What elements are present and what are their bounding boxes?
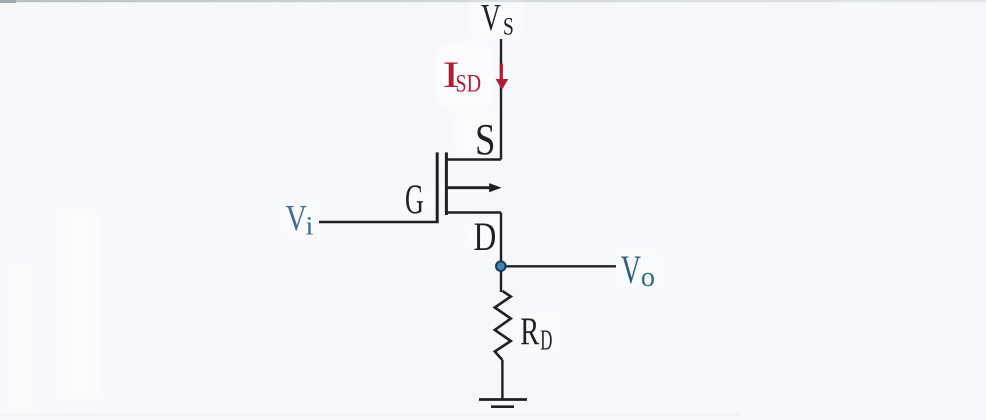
node: output junction dot [496,261,506,271]
pin label S [475,115,495,164]
wire: resistor to ground [501,360,503,400]
svg-text:V: V [481,0,501,39]
svg-text:S: S [503,12,514,40]
label Vi (blue) [286,198,307,239]
svg-text:i: i [306,212,314,241]
svg-text:o: o [641,262,655,293]
svg-text:V: V [286,198,307,239]
svg-text:D: D [540,325,552,357]
svg-text:SD: SD [456,69,482,97]
resistor RD zigzag [495,291,511,360]
wire: drain down through node to resistor [500,213,502,293]
label Vo (blue) [621,248,641,292]
svg-text:V: V [621,248,641,292]
label RD [520,311,539,353]
source lead [446,158,501,160]
svg-text:G: G [405,176,424,223]
pin label G [405,176,424,223]
wire: VS supply down to source [500,39,502,160]
transistor Q1 PMOS [437,152,501,222]
wire: node to output [501,265,616,267]
svg-text:R: R [520,311,539,353]
supply label VS [481,0,501,39]
channel bar [445,152,448,215]
svg-text:D: D [474,214,497,258]
channel arrow [446,186,490,189]
label ISD (red) [443,54,460,95]
gate bar [436,152,439,222]
wire: Vi input to gate [319,221,439,223]
drain lead [446,211,501,213]
ground [479,400,527,407]
svg-text:S: S [475,115,495,164]
pin label D [474,214,497,258]
current arrow ISD (red) [496,64,509,91]
